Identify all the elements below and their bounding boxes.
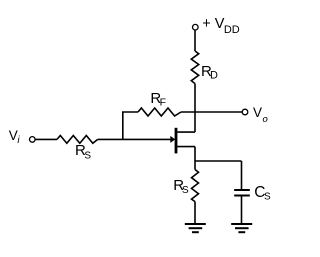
ground right: [231, 224, 252, 232]
ground left: [185, 224, 206, 232]
wire drain up to node: [194, 112, 196, 132]
terminal Vo (open circle): [242, 109, 248, 115]
wire VDD to RD: [194, 30, 196, 51]
wire RF to output node: [181, 111, 242, 113]
wire capacitor to ground: [241, 196, 243, 225]
gate arrowhead: [170, 136, 175, 143]
terminal +VDD (open circle): [193, 24, 199, 30]
wire RS to gate: [98, 138, 171, 140]
resistor RF: [138, 108, 181, 116]
wire RD to drain node: [194, 84, 196, 112]
wire node down to RS source: [194, 161, 196, 170]
wire RS to ground: [194, 202, 196, 224]
resistor RD: [191, 51, 198, 84]
wire node corner to RF (left vertical from gate): [123, 112, 138, 139]
wire source down to node: [194, 147, 196, 161]
transistor Q1 channel bar: [175, 128, 178, 154]
source contact: [177, 146, 195, 148]
wire Vi to RS: [35, 138, 57, 140]
resistor RS input: [57, 136, 98, 144]
terminal Vi (open circle): [30, 137, 36, 143]
resistor RS source: [192, 170, 199, 202]
wire capacitor branch down: [241, 161, 243, 190]
drain contact: [177, 131, 195, 133]
wire source node to capacitor branch: [195, 160, 242, 162]
capacitor CS: [234, 190, 250, 196]
